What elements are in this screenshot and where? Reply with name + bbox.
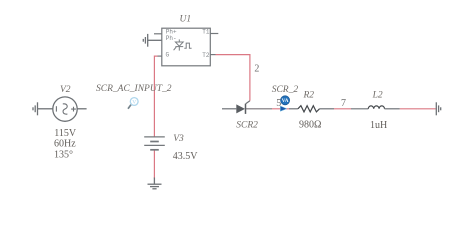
svg-text:1uH: 1uH [370, 120, 387, 131]
svg-text:5: 5 [276, 98, 281, 109]
svg-text:SCR2: SCR2 [236, 120, 258, 130]
svg-text:V2: V2 [60, 85, 71, 95]
svg-text:V3: V3 [173, 134, 184, 144]
svg-text:980Ω: 980Ω [299, 119, 321, 130]
svg-text:R2: R2 [303, 91, 315, 101]
svg-text:T2: T2 [202, 52, 210, 59]
svg-text:V: V [132, 100, 136, 106]
svg-text:135°: 135° [54, 150, 73, 161]
svg-text:SCR_AC_INPUT_2: SCR_AC_INPUT_2 [96, 84, 172, 94]
svg-text:SCR_2: SCR_2 [272, 85, 299, 95]
svg-text:2: 2 [254, 64, 259, 75]
svg-text:Ph-: Ph- [166, 35, 177, 42]
svg-text:43.5V: 43.5V [173, 151, 199, 162]
svg-text:G: G [166, 52, 170, 59]
svg-text:60Hz: 60Hz [54, 139, 76, 150]
svg-text:7: 7 [341, 98, 346, 109]
svg-text:U1: U1 [180, 14, 192, 24]
svg-text:L2: L2 [372, 91, 383, 101]
svg-text:115V: 115V [54, 128, 77, 139]
svg-text:T1: T1 [202, 29, 210, 36]
svg-text:VA: VA [282, 98, 289, 104]
